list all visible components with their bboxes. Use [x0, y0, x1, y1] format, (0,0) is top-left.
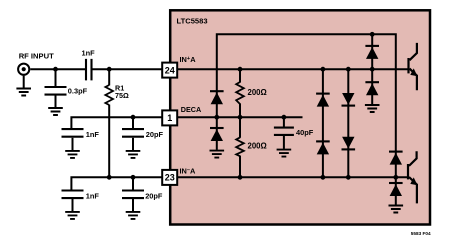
svg-text:75Ω: 75Ω	[115, 91, 129, 100]
svg-text:RF INPUT: RF INPUT	[19, 52, 54, 61]
svg-text:200Ω: 200Ω	[248, 142, 267, 151]
svg-text:1nF: 1nF	[86, 130, 100, 139]
svg-text:1nF: 1nF	[86, 191, 100, 200]
svg-text:20pF: 20pF	[146, 130, 164, 139]
svg-text:1: 1	[167, 113, 172, 123]
svg-text:0.3pF: 0.3pF	[68, 87, 88, 96]
svg-text:23: 23	[165, 173, 175, 183]
svg-text:40pF: 40pF	[296, 128, 314, 137]
svg-text:LTC5583: LTC5583	[177, 17, 208, 26]
svg-text:20pF: 20pF	[145, 191, 163, 200]
svg-text:DECA: DECA	[181, 105, 201, 114]
svg-text:1nF: 1nF	[82, 48, 96, 57]
svg-text:200Ω: 200Ω	[248, 88, 267, 97]
svg-text:24: 24	[165, 65, 175, 75]
svg-text:5583 F04: 5583 F04	[411, 231, 431, 236]
